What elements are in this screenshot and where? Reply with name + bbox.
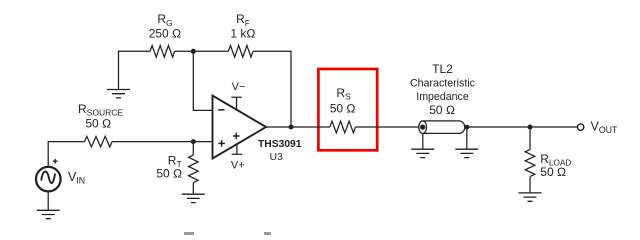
node A junction RG/RF xyxy=(191,49,196,54)
resistor RLOAD xyxy=(525,150,571,179)
svg-text:VIN: VIN xyxy=(68,170,85,186)
wire feedback right drop xyxy=(290,51,292,127)
ground (VIN) xyxy=(37,210,60,218)
svg-text:RSOURCE: RSOURCE xyxy=(78,102,123,118)
wire TL2 right shield to ground xyxy=(466,129,468,149)
ground (RT) xyxy=(182,194,205,202)
svg-text:50 Ω: 50 Ω xyxy=(156,166,182,180)
highlight box around RS xyxy=(318,69,377,150)
wire TL2 left shield to ground xyxy=(422,133,424,149)
terminal VOUT xyxy=(577,119,618,135)
wire VIN drop xyxy=(47,141,49,167)
svg-text:Impedance: Impedance xyxy=(416,91,469,103)
cropped caption remnants at bottom xyxy=(184,232,194,235)
svg-text:V−: V− xyxy=(232,81,246,93)
svg-text:RG: RG xyxy=(157,12,172,28)
wire main input rail xyxy=(48,141,212,143)
svg-text:RF: RF xyxy=(236,12,250,28)
V- supply pin xyxy=(231,81,245,110)
svg-text:50 Ω: 50 Ω xyxy=(429,103,455,117)
resistor RG xyxy=(149,12,182,57)
wire TL2 to VOUT xyxy=(467,126,577,128)
resistor RT xyxy=(156,154,198,183)
svg-text:1 kΩ: 1 kΩ xyxy=(230,27,255,41)
source VIN xyxy=(36,159,85,192)
wire feedback left drop to ground xyxy=(118,51,120,90)
wire op-amp output rail xyxy=(266,126,419,128)
svg-text:50 Ω: 50 Ω xyxy=(330,102,356,116)
svg-text:RS: RS xyxy=(336,86,351,102)
svg-text:V+: V+ xyxy=(231,160,245,172)
wire RT drop xyxy=(192,142,194,195)
svg-text:250 Ω: 250 Ω xyxy=(149,27,182,41)
ground (TL2 left) xyxy=(411,149,434,157)
node B junction RT / noninverting input xyxy=(191,139,196,144)
svg-text:50 Ω: 50 Ω xyxy=(85,117,111,131)
node output junction xyxy=(289,125,294,130)
node RLOAD junction xyxy=(528,125,533,130)
V+ supply pin xyxy=(231,144,245,171)
wire RLOAD drop xyxy=(529,127,531,193)
resistor RS xyxy=(330,86,356,133)
resistor RF xyxy=(228,12,255,57)
ground (TL2 right) xyxy=(455,149,478,157)
op-amp U3 THS3091 triangle xyxy=(213,96,302,164)
svg-text:U3: U3 xyxy=(269,151,283,163)
resistor RSOURCE xyxy=(78,102,123,147)
svg-text:VOUT: VOUT xyxy=(591,119,619,135)
svg-text:TL2: TL2 xyxy=(432,62,453,76)
svg-text:Characteristic: Characteristic xyxy=(410,78,475,90)
transmission line TL2 xyxy=(410,62,475,133)
ground (feedback left) xyxy=(107,90,130,98)
svg-text:50 Ω: 50 Ω xyxy=(540,165,566,179)
wire inverting input branch xyxy=(193,51,212,110)
wire VIN to ground xyxy=(47,191,49,210)
svg-text:THS3091: THS3091 xyxy=(258,138,302,150)
wire feedback top rail xyxy=(119,50,292,52)
ground (RLOAD) xyxy=(519,193,542,201)
